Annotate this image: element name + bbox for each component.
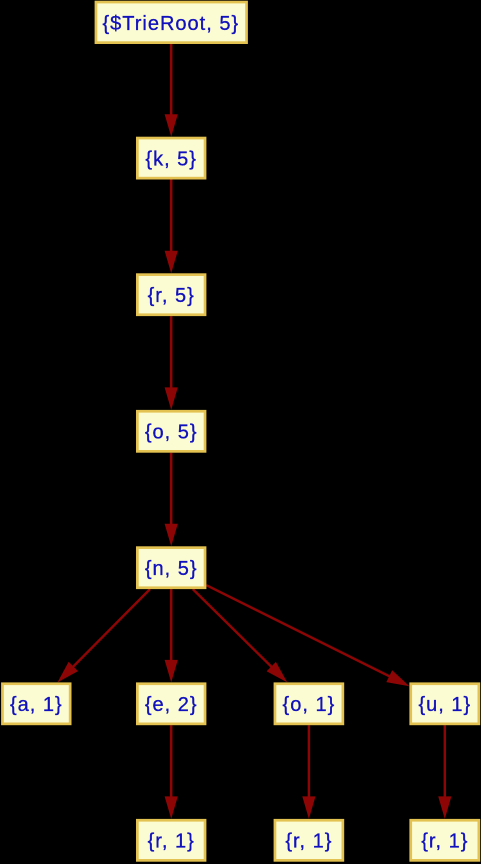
svg-text:{r, 1}: {r, 1} [285, 831, 332, 853]
svg-text:{r, 1}: {r, 1} [148, 831, 195, 853]
wire n->e [170, 589, 172, 664]
arrowhead root->k [165, 114, 178, 137]
node r1c [411, 820, 479, 860]
wire o->n [170, 453, 172, 528]
arrowhead n->a [58, 662, 79, 683]
arrowhead n->o1 [267, 662, 288, 683]
wire o1->r1b [308, 725, 310, 800]
wire root->k [170, 44, 172, 118]
node o1 [275, 684, 343, 724]
wire r->o [170, 316, 172, 391]
wire n->o1 [193, 589, 275, 670]
svg-text:{u, 1}: {u, 1} [418, 694, 471, 716]
svg-text:{r, 1}: {r, 1} [421, 831, 468, 853]
wire u1->r1c [444, 725, 446, 800]
node k [137, 138, 205, 178]
node $TrieRoot [96, 2, 247, 43]
wire e->r1a [170, 725, 172, 800]
node r1b [275, 820, 343, 860]
arrowhead u1->r1c [438, 796, 451, 819]
arrowhead o->n [165, 524, 178, 547]
wire n->a [70, 589, 150, 670]
svg-text:{r, 5}: {r, 5} [148, 285, 195, 307]
node u1 [411, 684, 479, 724]
arrowhead n->u1 [386, 670, 409, 686]
arrowhead r->o [165, 387, 178, 410]
svg-text:{k, 5}: {k, 5} [145, 149, 197, 171]
svg-text:{o, 5}: {o, 5} [145, 422, 198, 444]
node n5 [137, 548, 205, 588]
wire k->r [170, 180, 172, 255]
svg-text:{o, 1}: {o, 1} [283, 694, 336, 716]
node a1 [2, 684, 70, 724]
wire n->u1 [206, 585, 393, 678]
arrowhead n->e [165, 660, 178, 683]
svg-text:{e, 2}: {e, 2} [145, 694, 198, 716]
arrowhead o1->r1b [302, 796, 315, 819]
node r5 [137, 275, 205, 315]
node o5 [137, 411, 205, 451]
arrowhead e->r1a [165, 796, 178, 819]
node e2 [137, 684, 205, 724]
arrowhead k->r [165, 251, 178, 273]
svg-text:{$TrieRoot, 5}: {$TrieRoot, 5} [102, 13, 239, 35]
node r1a [137, 820, 205, 860]
svg-text:{n, 5}: {n, 5} [145, 558, 198, 580]
svg-text:{a, 1}: {a, 1} [10, 694, 63, 716]
